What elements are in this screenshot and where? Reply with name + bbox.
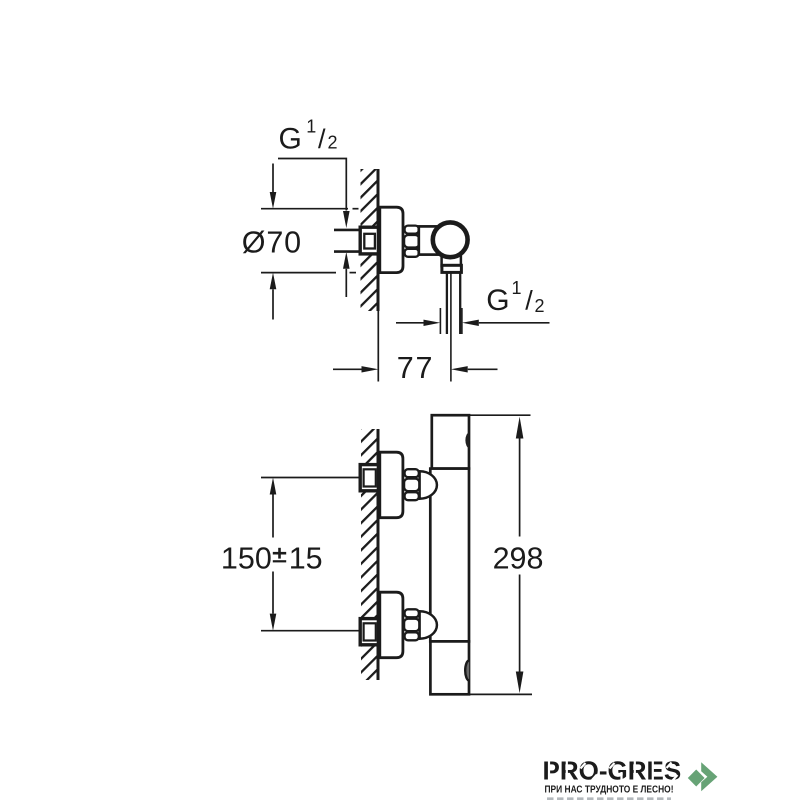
- supply pipe stub through wall: [334, 229, 378, 253]
- dim Ø70 extension bottom: [261, 272, 336, 274]
- svg-text:/: /: [318, 124, 326, 154]
- dim 150±15 upper arrow: [270, 478, 277, 495]
- label G 1/2 (top-left): [279, 116, 338, 155]
- svg-text:1: 1: [512, 278, 522, 298]
- outlet neck below circle: [442, 254, 461, 266]
- dim 150±15 lower arrow: [272, 572, 274, 614]
- G 1/2 right dim right arrow: [462, 320, 479, 326]
- upper dome check valve: [420, 471, 437, 498]
- svg-text:150: 150: [221, 542, 272, 576]
- svg-text:2: 2: [535, 296, 545, 316]
- body middle section: [430, 469, 469, 642]
- label G 1/2 (right): [486, 278, 544, 317]
- dim 298 ext bottom: [470, 693, 533, 695]
- wall hatch (bottom view): [361, 429, 379, 680]
- svg-text:Ø70: Ø70: [242, 225, 302, 259]
- wall hatch (top view): [361, 169, 379, 311]
- dim Ø70 extension top: [261, 208, 348, 210]
- svg-text:G: G: [486, 284, 509, 317]
- dim 298 lower arrow: [519, 575, 521, 672]
- supply line upper / ext 150: [261, 477, 362, 479]
- svg-text:1: 1: [306, 116, 316, 136]
- down pipe left line: [446, 272, 448, 334]
- dim 77 left arrow: [333, 368, 362, 370]
- square union in wall (top view): [360, 227, 378, 254]
- arrow down to pipe top: [343, 211, 350, 228]
- leader for G 1/2 top: [278, 159, 346, 211]
- escutcheon flange (top view, side): [380, 207, 403, 272]
- lower escutcheon (bottom view): [380, 592, 403, 658]
- lower square union in wall: [360, 619, 378, 645]
- wall extension down to 77 dim: [377, 311, 379, 382]
- arrow up to pipe bottom: [343, 252, 350, 269]
- lower knob dot: [465, 661, 469, 681]
- svg-text:77: 77: [397, 351, 435, 385]
- svg-text:15: 15: [289, 542, 323, 576]
- upper union nut (bottom view): [405, 469, 419, 477]
- logo chevron: [701, 762, 717, 791]
- upper knob dot: [465, 433, 469, 448]
- union nut (top view): [405, 226, 419, 234]
- svg-text:ПРИ НАС ТРУДНОТО Е ЛЕСНО!: ПРИ НАС ТРУДНОТО Е ЛЕСНО!: [545, 784, 674, 795]
- G 1/2 right dim left arrow: [396, 322, 424, 324]
- upper square union in wall: [360, 465, 378, 491]
- svg-text:G: G: [279, 122, 302, 155]
- wall edge line (bottom view): [377, 429, 380, 680]
- lower union nut (bottom view): [405, 609, 419, 617]
- dim 298 ext top: [469, 414, 531, 416]
- svg-text:PRO-GRES: PRO-GRES: [543, 756, 682, 786]
- dim 298 upper arrow: [516, 417, 524, 439]
- svg-text:2: 2: [328, 132, 338, 152]
- body top section: [432, 415, 469, 468]
- wall edge line (top view): [377, 169, 380, 311]
- dim Ø70 lower arrow: [270, 273, 277, 290]
- supply line lower / ext 150: [261, 630, 362, 632]
- logo wordmark PRO-GRES: [543, 756, 682, 786]
- dim 77 right arrow: [451, 366, 468, 372]
- lower dome check valve: [420, 611, 437, 638]
- upper escutcheon (bottom view): [380, 452, 403, 518]
- logo diamond: [688, 770, 705, 787]
- pipe center line: [450, 272, 452, 381]
- body bottom section: [430, 641, 469, 694]
- outlet collar: [442, 265, 462, 272]
- dim Ø70 upper arrow: [272, 164, 274, 193]
- valve body (top view): [419, 226, 446, 254]
- logo cut-off lower row: [547, 797, 671, 800]
- down pipe right line: [459, 272, 461, 334]
- svg-text:/: /: [525, 286, 533, 316]
- svg-text:298: 298: [493, 542, 544, 576]
- G 1/2 right dim stubs: [439, 308, 441, 334]
- thermostat handle circle: [433, 222, 468, 257]
